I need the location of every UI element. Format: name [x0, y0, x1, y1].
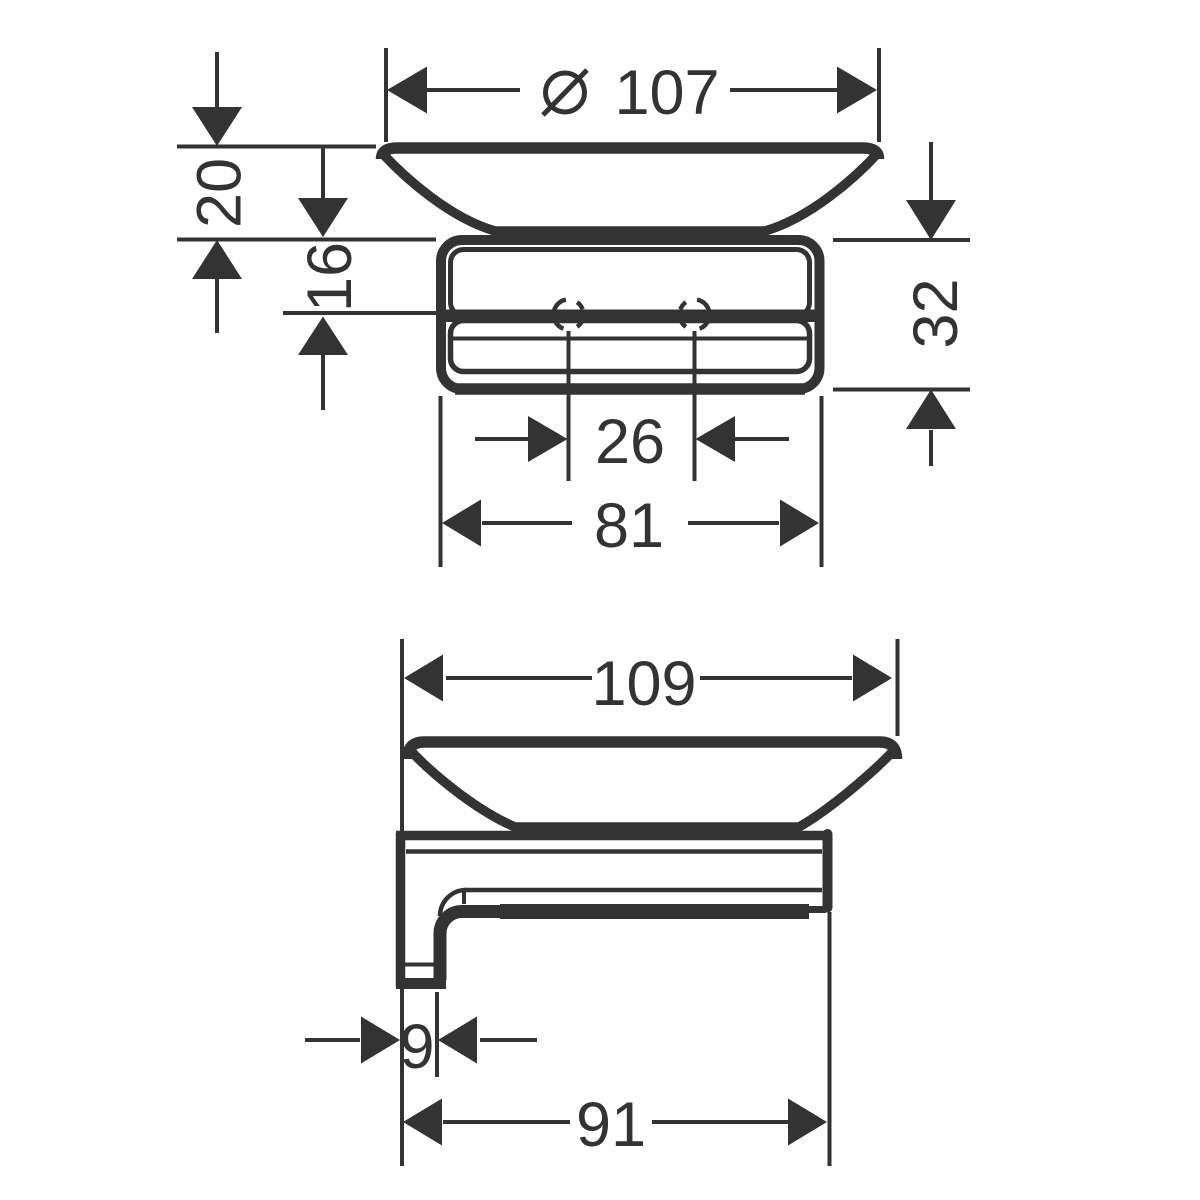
bracket corner and wall-plate right edge: [440, 912, 512, 981]
dim 9 right arrowhead: [438, 1017, 477, 1064]
dim 16 bottom reference line: [283, 311, 436, 315]
dim 81 dimension line left tail: [482, 521, 572, 525]
svg-text:16: 16: [295, 242, 365, 312]
dim 20 top arrow tail: [215, 52, 219, 108]
holder top edge (side view): [396, 831, 824, 841]
dim 16 bottom arrow tail: [321, 355, 325, 410]
bracket arm top line (side view): [464, 888, 822, 893]
dim 109 left arrowhead: [404, 655, 443, 702]
dim 26 left hole extension line: [567, 331, 571, 481]
dim 32 bottom arrow tail: [929, 430, 933, 466]
svg-text:81: 81: [594, 491, 664, 561]
dim 91 right extension line: [828, 912, 832, 1166]
dim 26 right arrowhead: [696, 416, 736, 462]
svg-text:32: 32: [901, 278, 971, 348]
dim 32 bottom arrowhead: [906, 390, 956, 430]
dish rim (side view): [408, 742, 897, 759]
svg-text:107: 107: [614, 58, 719, 128]
dish rim (front view): [382, 148, 879, 159]
dim 91 dimension line left tail: [443, 1120, 570, 1124]
dim Ø107 right arrowhead: [837, 67, 877, 114]
dim 20 bottom reference line: [177, 238, 436, 242]
dim 20 bottom arrow tail: [215, 279, 219, 333]
dim 26 dimension line right tail: [735, 437, 789, 441]
holder right end cap (side view): [823, 829, 833, 913]
holder outer rect bottom edge reinforcement: [455, 383, 805, 395]
svg-text:26: 26: [595, 407, 665, 477]
dim 91 dimension line right tail: [652, 1120, 788, 1124]
svg-text:9: 9: [399, 1012, 434, 1082]
dim 81 right arrowhead: [780, 500, 819, 547]
dim 26 dimension line left tail: [475, 437, 528, 441]
dim 9 right arrow tail: [480, 1038, 537, 1042]
dish bowl underside (front view): [382, 153, 878, 231]
bracket arm step (side view): [800, 906, 826, 913]
dim 91 right arrowhead: [788, 1099, 827, 1146]
dim 20 bottom arrowhead: [192, 240, 242, 279]
holder top inner line (side view): [406, 849, 822, 854]
dim 109 dimension line right tail: [700, 676, 852, 680]
dim 20 top reference line: [177, 145, 376, 149]
left mounting hole arcs: [554, 300, 566, 314]
svg-text:91: 91: [576, 1090, 646, 1160]
bracket arm bottom band: [500, 904, 809, 919]
bracket arm inner corner curve: [440, 890, 466, 916]
dim Ø107 diameter symbol: [543, 70, 587, 115]
svg-text:20: 20: [185, 158, 255, 228]
svg-text:109: 109: [591, 649, 696, 719]
dim 91 left arrowhead: [403, 1099, 442, 1146]
holder lower inner rect (front view): [451, 321, 810, 372]
dim 81 right extension line: [820, 396, 824, 567]
dim 20 top arrowhead: [192, 107, 242, 146]
dim 32 top arrowhead: [906, 200, 956, 240]
dim Ø107 left arrowhead: [387, 67, 427, 114]
dim 26 left arrowhead: [528, 416, 568, 462]
dim 81 dimension line right tail: [688, 521, 779, 525]
right mounting hole arcs: [697, 300, 709, 314]
dim 32 top reference line: [833, 238, 970, 242]
dim 109 right extension line: [896, 639, 900, 736]
dim 109 right arrowhead: [853, 655, 892, 702]
dim 109 dimension line left tail: [446, 676, 592, 680]
dim 32 bottom reference line: [833, 388, 970, 392]
dim Ø107 right extension line: [877, 48, 881, 142]
dim 16 top arrowhead: [298, 198, 348, 237]
dim 26 right hole extension line: [693, 331, 697, 481]
dim 32 top arrow tail: [929, 142, 933, 200]
bracket arm corner tick: [462, 888, 466, 904]
dim 81 left extension line: [439, 396, 443, 567]
dish bowl underside (side view): [408, 748, 896, 827]
wall plate bottom bar: [396, 978, 446, 989]
dim Ø107 dimension line right tail: [730, 88, 838, 92]
dim 16 bottom arrowhead: [298, 317, 348, 356]
holder mid thick band (front view): [437, 310, 823, 323]
holder upper inner rect (front view): [451, 250, 810, 316]
dim 9 left arrow tail: [305, 1038, 360, 1042]
dim 9 right extension line: [435, 992, 439, 1077]
dim 16 top arrow tail: [321, 147, 325, 198]
dim Ø107 dimension line left tail: [427, 88, 520, 92]
holder outer rounded rect (front view): [441, 240, 820, 389]
wall line / left extension line (side view): [400, 639, 404, 1166]
wall plate left edge: [396, 833, 406, 987]
holder lower detail line (front view): [448, 337, 812, 341]
dim 9 left arrowhead: [361, 1017, 400, 1064]
dim Ø107 left extension line: [384, 48, 388, 142]
dim 81 left arrowhead: [442, 500, 481, 547]
wall plate notch line: [401, 963, 436, 967]
